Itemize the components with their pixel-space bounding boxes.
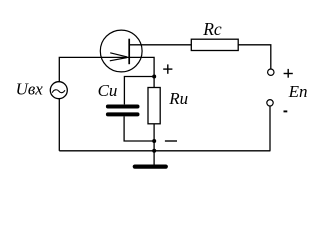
wire: input from source top to transistor emitter <box>59 57 129 81</box>
resistor Rc body <box>191 39 238 50</box>
AC source G1 circle <box>50 82 67 99</box>
transistor Q1 envelope circle <box>100 30 142 72</box>
label - (Ru bottom polarity) <box>165 140 177 142</box>
terminal - (open circle) <box>267 100 273 106</box>
node junction J1 <box>152 75 156 79</box>
transistor Q1 emitter arrow upper stroke <box>110 53 127 57</box>
svg-text:Rc: Rc <box>202 19 222 39</box>
label + (Ru top polarity) <box>163 64 172 73</box>
capacitor Cu top plate <box>108 105 138 109</box>
svg-text:Uвх: Uвх <box>16 80 44 99</box>
wire: branch to capacitor top <box>124 77 154 105</box>
label + (supply polarity) <box>284 69 293 78</box>
transistor Q1 emitter arrow lower stroke <box>110 58 127 61</box>
svg-text:En: En <box>288 82 308 101</box>
wire: collector to Rc <box>129 44 191 46</box>
svg-text:Ru: Ru <box>168 89 188 108</box>
wire: bottom rail <box>59 150 270 152</box>
node junction J3 <box>152 149 156 153</box>
wire: Ru bottom to ground <box>153 124 155 165</box>
svg-text:Cu: Cu <box>98 81 118 100</box>
transistor Q1 base bar <box>128 39 130 64</box>
wire: capacitor bottom to junction <box>124 116 154 141</box>
label - (supply polarity) <box>284 110 288 112</box>
wire: source bottom down <box>58 99 60 151</box>
terminal + (open circle) <box>268 69 274 75</box>
AC source G1 sine symbol <box>52 90 65 93</box>
ground bar <box>135 165 166 169</box>
wire: negative terminal down to bottom rail <box>269 106 271 151</box>
wire: Rc to positive terminal <box>238 45 271 69</box>
resistor Ru body <box>148 88 160 124</box>
wire: base lead right and down to Ru <box>129 57 154 87</box>
capacitor Cu bottom plate <box>108 112 138 116</box>
node junction J2 <box>152 139 156 143</box>
